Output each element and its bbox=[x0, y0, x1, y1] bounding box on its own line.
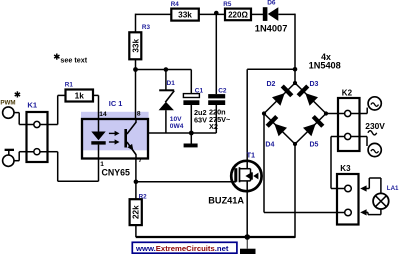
svg-text:R5: R5 bbox=[223, 1, 232, 8]
svg-text:see text: see text bbox=[60, 55, 87, 64]
svg-text:8: 8 bbox=[137, 111, 141, 118]
svg-text:CNY65: CNY65 bbox=[102, 167, 130, 177]
svg-text:33k: 33k bbox=[131, 39, 140, 53]
svg-text:D4: D4 bbox=[265, 142, 274, 149]
svg-text:1N4007: 1N4007 bbox=[255, 23, 288, 33]
svg-text:K3: K3 bbox=[340, 164, 351, 173]
svg-text:230V: 230V bbox=[365, 121, 385, 131]
svg-text:BUZ41A: BUZ41A bbox=[208, 196, 244, 206]
svg-text:T1: T1 bbox=[247, 150, 256, 159]
svg-text:R4: R4 bbox=[171, 1, 180, 8]
svg-text:C2: C2 bbox=[218, 88, 227, 95]
svg-text:D6: D6 bbox=[267, 0, 276, 7]
svg-text:K1: K1 bbox=[27, 100, 37, 109]
svg-text:PWM: PWM bbox=[0, 99, 15, 106]
svg-text:14: 14 bbox=[99, 111, 107, 118]
svg-text:1N5408: 1N5408 bbox=[309, 60, 341, 70]
svg-text:63V: 63V bbox=[194, 116, 207, 125]
svg-text:220Ω: 220Ω bbox=[228, 10, 248, 19]
svg-text:LA1: LA1 bbox=[387, 185, 399, 192]
svg-text:www.ExtremeCircuits.net: www.ExtremeCircuits.net bbox=[135, 244, 229, 253]
svg-text:D1: D1 bbox=[167, 80, 176, 87]
svg-text:R2: R2 bbox=[139, 193, 148, 200]
svg-text:0W4: 0W4 bbox=[170, 123, 184, 130]
svg-text:22k: 22k bbox=[132, 205, 141, 219]
svg-text:K2: K2 bbox=[342, 89, 353, 98]
svg-text:D3: D3 bbox=[310, 81, 319, 88]
svg-text:X2: X2 bbox=[209, 122, 218, 131]
svg-text:C1: C1 bbox=[195, 88, 204, 95]
svg-text:D2: D2 bbox=[267, 81, 276, 88]
svg-text:R1: R1 bbox=[65, 81, 74, 88]
svg-text:1: 1 bbox=[100, 161, 104, 168]
svg-text:7: 7 bbox=[138, 157, 142, 164]
svg-text:R3: R3 bbox=[142, 24, 151, 31]
svg-text:IC 1: IC 1 bbox=[109, 99, 123, 108]
svg-text:1k: 1k bbox=[75, 91, 85, 101]
svg-text:33k: 33k bbox=[178, 10, 192, 20]
svg-text:D5: D5 bbox=[310, 142, 319, 149]
